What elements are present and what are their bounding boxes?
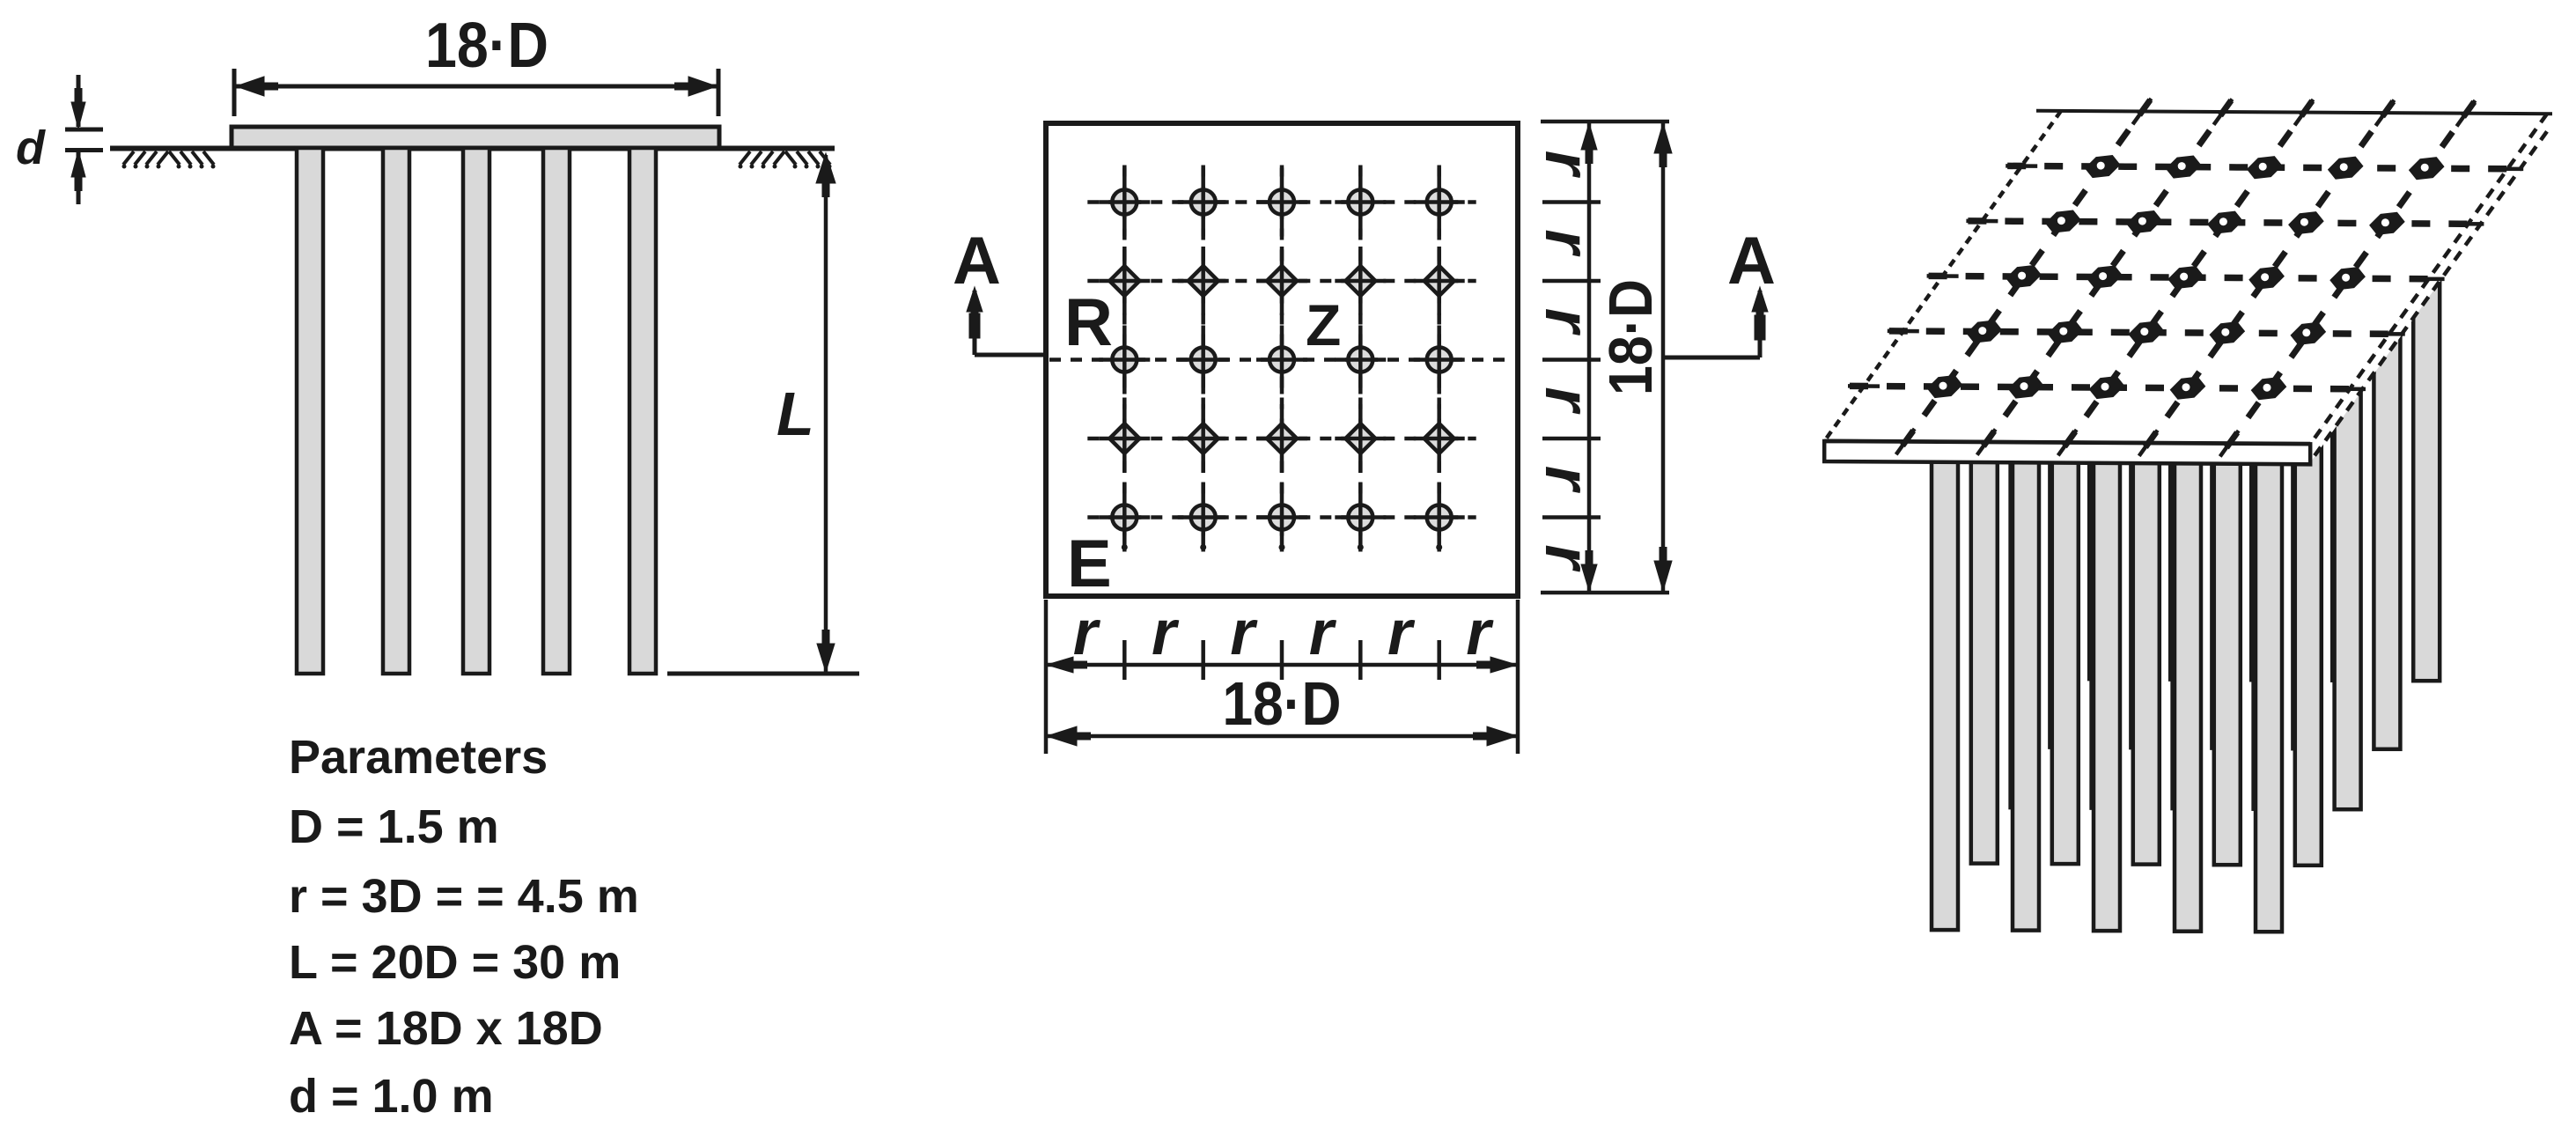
svg-text:r: r <box>1466 598 1494 668</box>
svg-text:r: r <box>1073 598 1101 668</box>
svg-text:r: r <box>1387 598 1416 668</box>
svg-text:L = 20D = 30 m: L = 20D = 30 m <box>289 936 621 989</box>
svg-text:r: r <box>1532 229 1602 257</box>
svg-text:Parameters: Parameters <box>289 731 548 784</box>
svg-text:r: r <box>1532 387 1602 415</box>
svg-text:r: r <box>1532 308 1602 336</box>
svg-text:d = 1.0 m: d = 1.0 m <box>289 1070 494 1123</box>
svg-text:Z: Z <box>1306 292 1341 357</box>
svg-text:E: E <box>1067 527 1112 601</box>
svg-text:r: r <box>1532 544 1602 572</box>
svg-text:A: A <box>953 224 1001 298</box>
svg-text:R: R <box>1064 285 1113 360</box>
svg-text:r: r <box>1532 466 1602 494</box>
svg-text:d: d <box>16 122 46 174</box>
svg-text:18·D: 18·D <box>1223 669 1342 738</box>
svg-text:r: r <box>1532 151 1602 179</box>
svg-text:18·D: 18·D <box>1596 279 1665 395</box>
svg-text:D = 1.5 m: D = 1.5 m <box>289 800 499 853</box>
svg-text:18·D: 18·D <box>425 11 548 81</box>
svg-text:r = 3D = = 4.5 m: r = 3D = = 4.5 m <box>289 870 639 923</box>
svg-text:A: A <box>1727 224 1776 298</box>
svg-text:r: r <box>1230 598 1258 668</box>
svg-text:r: r <box>1152 598 1180 668</box>
svg-text:L: L <box>776 380 814 448</box>
svg-text:r: r <box>1309 598 1337 668</box>
svg-text:A = 18D x 18D: A = 18D x 18D <box>289 1002 603 1055</box>
